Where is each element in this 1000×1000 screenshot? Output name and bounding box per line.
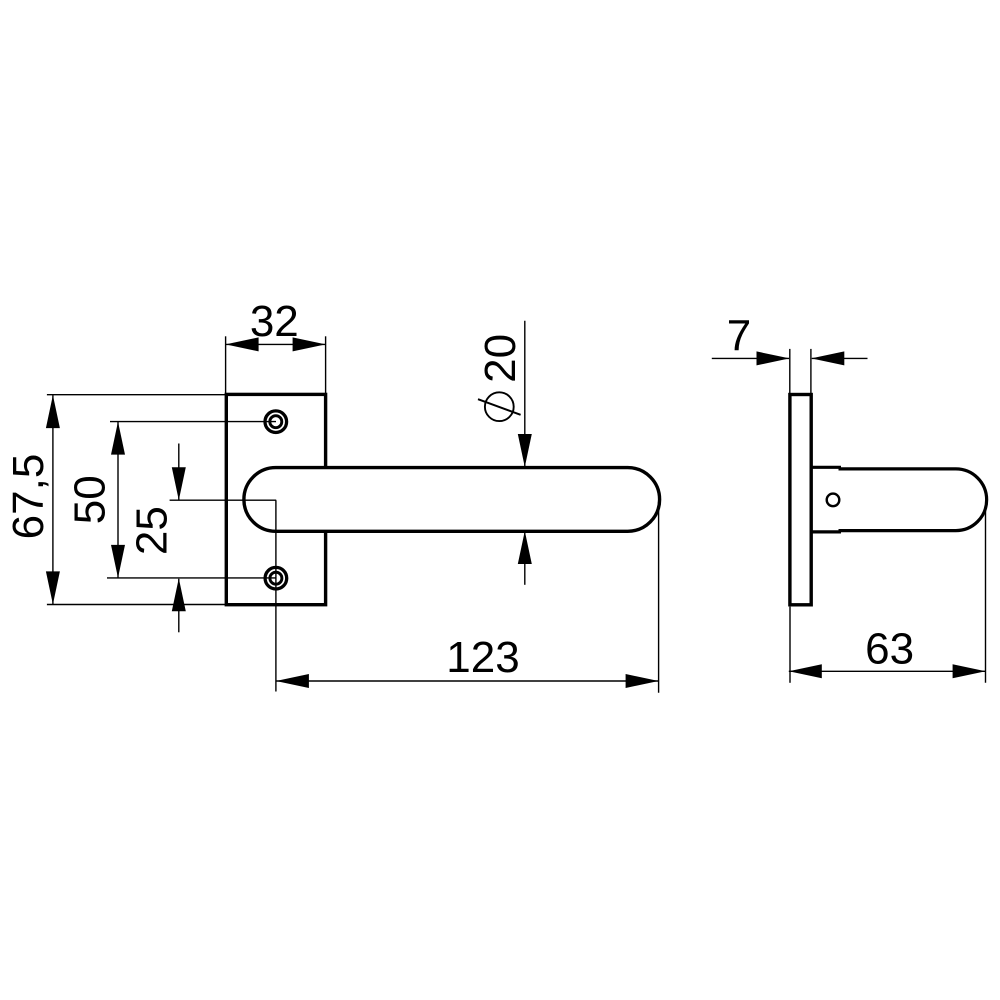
handle side view grip: [839, 469, 987, 531]
dim 32 extension line left: [225, 336, 227, 393]
dim 67,5 arrow top: [46, 395, 60, 428]
svg-text:67,5: 67,5: [4, 454, 53, 540]
front plate: [226, 394, 325, 604]
dim 123 extension line left: [275, 500, 277, 691]
top screw: [265, 411, 287, 433]
side plate: [790, 395, 811, 605]
dim 32 arrow left: [226, 337, 259, 351]
dim 67,5 extension line top: [47, 394, 226, 396]
dim 50 extension line bottom: [107, 577, 276, 579]
dim 25 arrow bottom: [172, 578, 186, 611]
dim 50 line: [117, 422, 119, 578]
dim 50 arrow bottom: [111, 545, 125, 578]
handle side view neck bottom: [811, 530, 841, 533]
dim 63 arrow left: [789, 664, 822, 678]
dim 123 line: [276, 680, 659, 682]
dim 67,5 line: [52, 395, 54, 604]
svg-text:63: 63: [865, 625, 914, 674]
svg-text:20: 20: [476, 334, 525, 383]
svg-text:7: 7: [727, 311, 751, 360]
dim 7 line left: [712, 357, 789, 359]
dim 7 line right: [812, 357, 868, 359]
dim 123 arrow left: [276, 674, 309, 688]
dim phi20 diameter symbol: [478, 392, 521, 421]
svg-text:32: 32: [250, 297, 299, 346]
dim 67,5 extension line bottom: [47, 604, 226, 606]
handle side view neck top: [811, 466, 841, 469]
dim 63 extension line left: [789, 607, 791, 683]
dim phi20 arrow bottom: [518, 531, 532, 564]
dim 7 arrow right: [811, 351, 844, 365]
dim phi20 line top: [524, 321, 526, 467]
svg-text:50: 50: [66, 475, 115, 524]
dim 25 arrow top: [172, 467, 186, 500]
dim 32 arrow right: [293, 337, 326, 351]
dim 63 line: [789, 670, 986, 672]
dim 7 extension line right: [810, 349, 812, 394]
handle front view: [244, 468, 660, 532]
dim 50 arrow top: [111, 422, 125, 455]
dim 25 tail top: [178, 444, 180, 500]
dim 63 extension line right: [985, 508, 987, 683]
dim phi20 line bottom: [524, 531, 526, 585]
dim 63 arrow right: [953, 664, 986, 678]
svg-text:25: 25: [128, 506, 177, 555]
dim phi20 arrow top: [518, 434, 532, 467]
dim 7 arrow left: [757, 351, 790, 365]
dim 32 line: [226, 343, 326, 345]
dim 25 extension line: [170, 499, 277, 501]
dim 123 arrow right: [626, 674, 659, 688]
dim 32 extension line right: [325, 336, 327, 393]
dim 50 extension line top: [110, 421, 276, 423]
dim 7 extension line left: [789, 349, 791, 394]
dim 67,5 arrow bottom: [46, 571, 60, 604]
bottom screw: [265, 567, 287, 589]
svg-text:123: 123: [446, 633, 519, 682]
dim 25 tail bottom: [178, 579, 180, 633]
dim 123 extension line right: [658, 502, 660, 693]
side screw hole: [827, 494, 840, 507]
